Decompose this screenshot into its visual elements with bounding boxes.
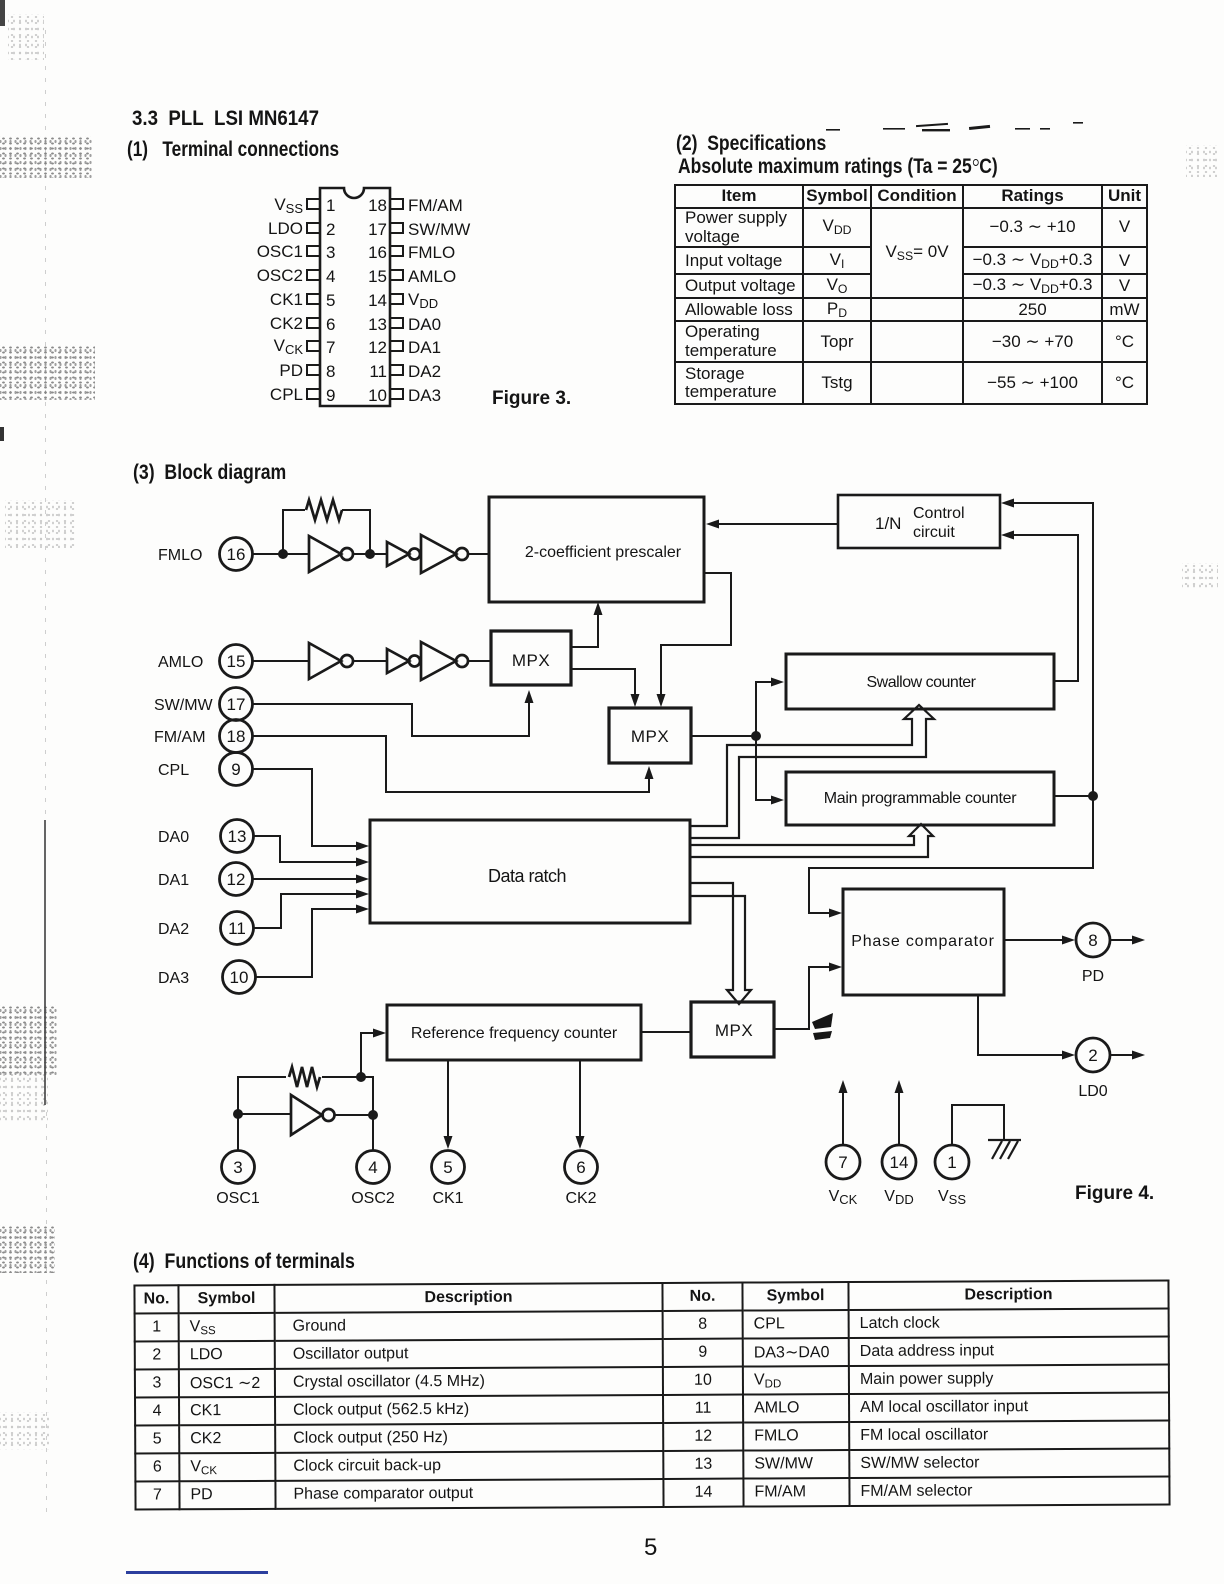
node FMLO pin circle 16	[220, 538, 253, 571]
wire A3 to prescaler	[467, 553, 489, 555]
svg-text:SW/MW: SW/MW	[408, 220, 470, 239]
junction dot MPX U3 output	[751, 731, 761, 741]
block 2-coefficient prescaler	[489, 497, 704, 602]
svg-text:10: 10	[230, 968, 249, 987]
wire MPX U2 out B to MPX U3	[571, 669, 640, 707]
svg-text:Control: Control	[913, 505, 965, 522]
wire MPX U4 to phase comparator input 2	[775, 963, 842, 1030]
block reference frequency counter	[387, 1005, 641, 1060]
svg-text:7: 7	[326, 338, 335, 357]
svg-text:9: 9	[326, 386, 335, 405]
block data latch	[370, 820, 690, 923]
svg-text:CK2: CK2	[565, 1190, 596, 1207]
svg-text:6: 6	[576, 1158, 585, 1177]
wire feedback left leg	[283, 510, 305, 554]
svg-text:CK1: CK1	[432, 1190, 463, 1207]
node DA0 pin circle 13	[221, 820, 254, 853]
svg-text:5: 5	[326, 291, 335, 310]
pin 16 pad	[390, 246, 403, 256]
wire circle12 to data latch	[253, 875, 369, 884]
left margin scanner noise patches	[8, 14, 44, 60]
node OSC1 pin circle 3	[222, 1151, 255, 1184]
svg-text:CK2: CK2	[270, 314, 303, 333]
wire B1 to B2	[352, 660, 387, 662]
svg-text:MPX: MPX	[631, 727, 669, 746]
svg-text:17: 17	[227, 695, 246, 714]
resistor R2 (crystal feedback)	[289, 1067, 320, 1087]
svg-text:Phase comparator: Phase comparator	[851, 933, 995, 950]
wire circle11 to data latch	[254, 890, 369, 929]
svg-text:AMLO: AMLO	[408, 267, 456, 286]
inverter C1	[291, 1095, 335, 1135]
pin 6 pad	[307, 318, 320, 328]
svg-text:OSC1: OSC1	[257, 242, 303, 261]
svg-text:DA3: DA3	[408, 386, 441, 405]
svg-text:DA0: DA0	[408, 315, 441, 334]
svg-text:2: 2	[326, 220, 335, 239]
wire MPX U3 output to junction	[691, 735, 756, 737]
svg-text:16: 16	[227, 545, 246, 564]
inverter A1	[309, 536, 353, 572]
pin 18 pad	[390, 199, 403, 209]
node AMLO pin circle 15	[220, 645, 253, 678]
wire circle16 to inverter A1	[253, 553, 309, 555]
node DA3 pin circle 10	[223, 961, 256, 994]
junction dot at FMLO input	[278, 549, 288, 559]
inverter B1	[309, 643, 353, 679]
svg-text:17: 17	[368, 220, 387, 239]
pin 8 pad	[307, 365, 320, 375]
pin numbers right column	[368, 196, 387, 405]
block MPX U3 (center)	[609, 708, 691, 763]
svg-text:VDD: VDD	[884, 1188, 913, 1207]
pin 12 pad	[390, 341, 403, 351]
resistor R1 (FMLO feedback)	[306, 500, 342, 520]
wire circle10 to data latch	[256, 905, 369, 978]
svg-text:4: 4	[368, 1158, 377, 1177]
block MPX U4 (bottom)	[691, 1002, 774, 1057]
junction dot main counter output	[1088, 791, 1098, 801]
svg-text:11: 11	[228, 919, 246, 938]
pin 4 pad	[307, 270, 320, 280]
svg-text:FMLO: FMLO	[158, 547, 202, 564]
wire MPX U2 out A to prescaler bottom	[571, 602, 603, 647]
svg-text:18: 18	[227, 727, 246, 746]
svg-text:MPX: MPX	[715, 1021, 753, 1040]
inverter A2	[387, 542, 420, 566]
node FM/AM pin circle 18	[220, 720, 253, 753]
pin 5 pad	[307, 294, 320, 304]
junction dot feedback tap	[356, 1072, 366, 1082]
svg-text:8: 8	[1088, 931, 1097, 950]
svg-text:13: 13	[228, 827, 247, 846]
svg-text:4: 4	[326, 267, 335, 286]
svg-text:DA0: DA0	[158, 829, 189, 846]
pin numbers left column	[326, 196, 335, 405]
wire A1 to A2	[352, 553, 387, 555]
svg-text:DA2: DA2	[408, 362, 441, 381]
node VDD pin circle 14 with arrow up	[882, 1080, 916, 1179]
svg-text:CK1: CK1	[270, 290, 303, 309]
node OSC2 pin circle 4	[357, 1151, 390, 1184]
bus data latch to swallow counter (hollow arrow)	[691, 705, 934, 838]
headings	[132, 107, 319, 131]
svg-text:3: 3	[326, 243, 335, 262]
wire reference counter to CK1 circle 5	[444, 1060, 453, 1149]
node VSS pin circle 1	[935, 1145, 969, 1179]
svg-text:1: 1	[326, 196, 335, 215]
svg-text:Main programmable counter: Main programmable counter	[824, 790, 1018, 807]
wire control circuit to prescaler	[706, 520, 838, 529]
wire circle9 to data latch	[252, 769, 369, 851]
node VCK pin circle 7 with arrow up	[826, 1080, 860, 1179]
spec table	[674, 184, 1148, 405]
wire phase comparator to PD circle 8	[1004, 936, 1075, 945]
inverter A3	[421, 535, 468, 573]
functions of terminals table	[133, 1279, 1170, 1510]
wire PD output arrow	[1110, 936, 1145, 945]
node SW/MW pin circle 17	[220, 688, 253, 721]
wire circle13 to data latch	[254, 836, 369, 867]
svg-text:Swallow counter: Swallow counter	[867, 674, 977, 691]
svg-text:15: 15	[227, 652, 246, 671]
junction dot OSC2 node	[368, 1110, 378, 1120]
svg-text:5: 5	[443, 1158, 452, 1177]
wire phase comparator to LD0 circle 2	[978, 995, 1075, 1060]
bus data latch to MPX U4 (hollow arrow)	[691, 883, 751, 1004]
svg-text:VSS: VSS	[938, 1188, 966, 1207]
pin 13 pad	[390, 318, 403, 328]
svg-text:3: 3	[233, 1158, 242, 1177]
svg-text:PD: PD	[1082, 968, 1104, 985]
wire B3 to MPX U2	[467, 660, 491, 662]
wire main counter output	[1054, 795, 1093, 797]
junction dot at inverter A1 output	[365, 549, 375, 559]
wire prescaler out to MPX U3	[657, 573, 732, 707]
svg-text:8: 8	[326, 362, 335, 381]
pin 15 pad	[390, 270, 403, 280]
svg-text:VDD: VDD	[408, 290, 438, 311]
svg-text:DA3: DA3	[158, 970, 189, 987]
node DA2 pin circle 11	[221, 912, 254, 945]
bus data latch to main counter (hollow arrow)	[691, 824, 933, 857]
svg-text:Data ratch: Data ratch	[488, 866, 566, 886]
svg-text:11: 11	[369, 362, 387, 381]
wire OSC2 node down to circle 4	[372, 1115, 374, 1150]
block phase comparator	[843, 889, 1004, 995]
wire circle15 to inverter B1	[253, 660, 309, 662]
svg-text:OSC2: OSC2	[257, 266, 303, 285]
wire OSC feedback left	[238, 1077, 286, 1114]
svg-text:10: 10	[368, 386, 387, 405]
inverter B2	[387, 649, 420, 673]
block swallow counter	[786, 654, 1054, 709]
inverter B3	[421, 642, 468, 680]
svg-text:18: 18	[368, 196, 387, 215]
wire VSS to ground	[952, 1105, 1004, 1145]
wire feedback right leg	[342, 510, 370, 554]
svg-text:PD: PD	[279, 361, 303, 380]
svg-text:Reference frequency counter: Reference frequency counter	[411, 1025, 618, 1042]
pin 7 pad	[307, 341, 320, 351]
pin 3 pad	[307, 246, 320, 256]
node CK1 pin circle 5	[432, 1151, 465, 1184]
svg-text:SW/MW: SW/MW	[154, 697, 214, 714]
svg-text:FM/AM: FM/AM	[154, 729, 206, 746]
pin 17 pad	[390, 223, 403, 233]
svg-text:OSC2: OSC2	[351, 1190, 395, 1207]
svg-text:Figure 3.: Figure 3.	[492, 388, 571, 409]
IC U1 MN6147 package body	[320, 188, 390, 406]
svg-text:DA2: DA2	[158, 921, 189, 938]
svg-text:6: 6	[326, 315, 335, 334]
ink smudge marks	[812, 1013, 833, 1040]
node CPL pin circle 9	[220, 753, 253, 786]
svg-text:OSC1: OSC1	[216, 1190, 260, 1207]
svg-text:VSS: VSS	[274, 195, 303, 216]
svg-text:MPX: MPX	[512, 651, 550, 670]
pin labels left: VSS LDO OSC1 OSC2 CK1 CK2 VCK PD CPL	[257, 195, 304, 404]
svg-text:FMLO: FMLO	[408, 243, 455, 262]
wire junction to main counter	[756, 736, 784, 805]
svg-text:12: 12	[227, 870, 246, 889]
pin 14 pad	[390, 294, 403, 304]
wire junction to swallow counter	[756, 678, 784, 737]
svg-text:2: 2	[1088, 1046, 1097, 1065]
svg-text:DA1: DA1	[408, 338, 441, 357]
svg-text:1: 1	[947, 1153, 956, 1172]
wire OSC feedback right	[322, 1077, 373, 1115]
wire reference counter to CK2 circle 6	[576, 1060, 585, 1149]
pin 11 pad	[390, 365, 403, 375]
svg-text:CPL: CPL	[158, 762, 189, 779]
block MPX U2 (AM/FM select)	[491, 631, 571, 685]
svg-text:16: 16	[368, 243, 387, 262]
wire circle18 to MPX U3 bottom	[252, 736, 654, 792]
svg-text:12: 12	[368, 338, 387, 357]
svg-text:13: 13	[368, 315, 387, 334]
wire swallow counter to control circuit	[1001, 531, 1078, 682]
svg-text:1/N: 1/N	[875, 514, 901, 533]
pin 2 pad	[307, 223, 320, 233]
wire LD0 output arrow	[1110, 1051, 1145, 1060]
wire tap to reference counter	[361, 1029, 386, 1078]
node LD0 pin circle 2	[1076, 1038, 1110, 1072]
pin 1 pad	[307, 199, 320, 209]
wire circle17 to MPX U2 bottom	[252, 690, 534, 736]
svg-text:VCK: VCK	[829, 1188, 858, 1207]
svg-text:2-coefficient prescaler: 2-coefficient prescaler	[525, 544, 682, 561]
svg-text:15: 15	[368, 267, 387, 286]
wire reference counter to MPX U4	[641, 1031, 692, 1033]
diagram signal labels	[154, 547, 1154, 1207]
junction dot OSC1 node	[233, 1109, 243, 1119]
crystal oscillator: wire circle3 to inverter C1	[238, 1114, 291, 1150]
wire C1 output to OSC2 node	[334, 1114, 373, 1116]
svg-text:14: 14	[368, 291, 387, 310]
node DA1 pin circle 12	[220, 863, 253, 896]
blue pen line bottom left	[126, 1571, 268, 1574]
wire feedback down to phase comparator input 1	[809, 796, 1093, 918]
svg-text:Figure 4.: Figure 4.	[1075, 1183, 1154, 1204]
svg-text:7: 7	[838, 1153, 847, 1172]
svg-text:circuit: circuit	[913, 524, 955, 541]
node CK2 pin circle 6	[565, 1151, 598, 1184]
svg-text:9: 9	[231, 760, 240, 779]
svg-text:LDO: LDO	[268, 219, 303, 238]
svg-text:FM/AM: FM/AM	[408, 196, 463, 215]
svg-text:14: 14	[890, 1153, 909, 1172]
block main programmable counter	[786, 772, 1054, 825]
svg-text:LD0: LD0	[1078, 1083, 1107, 1100]
svg-text:DA1: DA1	[158, 872, 189, 889]
block control circuit 1/N	[838, 495, 1000, 548]
node PD pin circle 8	[1076, 923, 1110, 957]
pin 10 pad	[390, 389, 403, 399]
pin labels right: FM/AM SW/MW FMLO AMLO VDD DA0..DA3	[408, 196, 470, 405]
wire feedback up to control circuit	[1001, 499, 1093, 797]
svg-text:CPL: CPL	[270, 385, 303, 404]
svg-text:VCK: VCK	[274, 336, 304, 357]
dash marks right of Specifications heading	[826, 122, 1083, 131]
svg-text:AMLO: AMLO	[158, 654, 203, 671]
ground	[988, 1140, 1021, 1159]
pin 9 pad	[307, 389, 320, 399]
